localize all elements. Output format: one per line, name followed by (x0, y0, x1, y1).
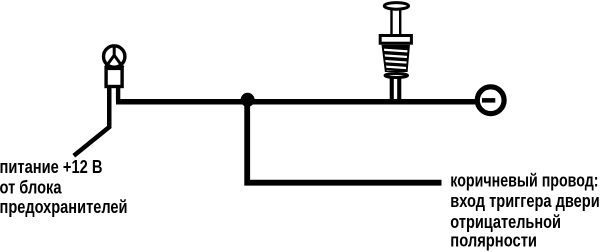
switch S1: plunger shaft (392, 9, 401, 36)
switch S1: threaded body (381, 45, 411, 73)
label: коричневый провод (450, 171, 599, 251)
svg-text:отрицательной: отрицательной (450, 212, 561, 232)
lamp L1: bulb circle (104, 46, 125, 67)
svg-text:полярности: полярности (450, 231, 537, 251)
switch S1: base disc (385, 74, 408, 78)
svg-text:питание +12 В: питание +12 В (0, 157, 103, 177)
node: junction dot (241, 93, 255, 107)
ground: minus bar (482, 98, 495, 103)
wire: switch legs to bus (390, 78, 394, 102)
label: питание +12 В от блока предохранителей (0, 157, 128, 217)
svg-text:от блока: от блока (0, 178, 62, 198)
wire: lamp left lead down and diagonal to +12V label (74, 86, 109, 156)
wire: drop from junction down and right to brown-wire label (247, 102, 441, 183)
wire: main horizontal bus from lamp to ground (116, 99, 477, 105)
switch S1 (door pin switch): plunger head (384, 3, 408, 10)
wire: lamp right lead to bus (116, 86, 120, 102)
svg-text:предохранителей: предохранителей (0, 197, 128, 217)
lamp L1: base rectangle (106, 68, 122, 86)
lamp L1: filament (105, 46, 123, 68)
switch S1: collar (380, 36, 411, 44)
svg-text:вход триггера двери: вход триггера двери (450, 191, 599, 211)
svg-text:коричневый провод:: коричневый провод: (450, 171, 598, 191)
ground: negative terminal circle (477, 87, 504, 114)
